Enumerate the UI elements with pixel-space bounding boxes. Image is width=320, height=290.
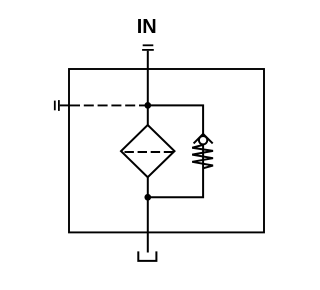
substrate/case terminal (open cup) (138, 251, 156, 261)
ESD clamp chevron (194, 134, 213, 144)
terminal IN (open-pin double-bar symbol) (142, 45, 154, 50)
ESD clamp zigzag (192, 145, 213, 168)
wire node A to ESD branch (top, with corner) (148, 105, 203, 134)
current source I1 (diamond) (121, 125, 175, 177)
node B junction dot (144, 194, 151, 201)
wire IN terminal to current source top (147, 51, 149, 126)
node A junction dot (144, 102, 151, 109)
dashed control line inside diamond (125, 151, 174, 153)
svg-text:IN: IN (137, 16, 157, 38)
ESD clamp circle (199, 136, 207, 144)
wire left terminal to box edge (60, 104, 70, 106)
wire diamond bottom through node B to substrate terminal (147, 177, 149, 253)
terminal left (open-pin double-bar symbol) (55, 100, 59, 111)
wire ESD branch bottom (corner back to node B) (148, 144, 203, 197)
block outline (device boundary box) (69, 69, 264, 232)
dashed wire from box edge to node A (70, 104, 148, 106)
